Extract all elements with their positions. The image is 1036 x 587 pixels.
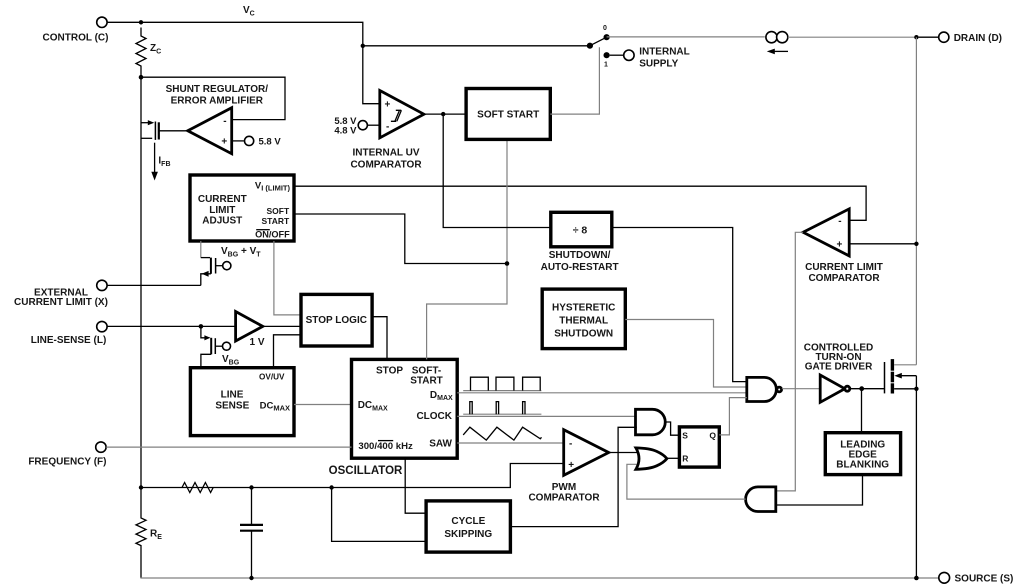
svg-text:INTERNAL: INTERNAL	[639, 47, 690, 58]
op-amp internal UV comparator	[380, 91, 424, 138]
terminal 5.8 V reference	[245, 136, 254, 145]
svg-text:SOURCE (S): SOURCE (S)	[955, 574, 1014, 585]
svg-text:COMPARATOR: COMPARATOR	[350, 160, 422, 171]
node junction below Zc	[139, 75, 144, 80]
node junction UV out	[441, 112, 445, 116]
block LINE SENSE	[190, 368, 294, 436]
op-amp current limit comparator	[803, 209, 849, 256]
wire CLOCK to AND	[457, 415, 636, 417]
wire soft-start net into oscillator	[427, 140, 507, 360]
svg-text:THERMAL: THERMAL	[559, 316, 608, 327]
wire driver out to MOSFET gate	[850, 388, 885, 390]
wire latch Q to NAND	[719, 398, 747, 435]
wire ON/OFF down to stop logic	[274, 241, 301, 315]
wire L to buffer	[107, 325, 235, 327]
svg-text:ERROR AMPLIFIER: ERROR AMPLIFIER	[171, 96, 264, 107]
wire error amp plus to 5.8V	[232, 140, 244, 142]
wire source rail down	[915, 376, 917, 578]
terminal 5.8/4.8V threshold	[358, 121, 367, 130]
waveform SAW triangle	[463, 427, 541, 440]
svg-text:DRAIN (D): DRAIN (D)	[954, 33, 1002, 44]
svg-text:SHUTDOWN: SHUTDOWN	[554, 329, 613, 340]
svg-text:÷ 8: ÷ 8	[573, 224, 588, 236]
node junction frequency RC	[139, 485, 143, 489]
svg-text:SOFT START: SOFT START	[477, 110, 539, 121]
svg-text:FREQUENCY (F): FREQUENCY (F)	[28, 456, 106, 467]
svg-text:+: +	[221, 137, 227, 148]
wire AND out to latch S	[666, 422, 679, 435]
op-amp U1 shunt regulator / error amplifier	[188, 108, 232, 154]
wire X to transistor	[107, 284, 201, 286]
svg-text:STOP: STOP	[376, 365, 403, 376]
buffer 1V	[236, 312, 263, 342]
svg-text:INTERNAL UV: INTERNAL UV	[352, 148, 419, 159]
wire F to oscillator	[106, 446, 351, 448]
current source	[766, 32, 777, 43]
svg-text:CURRENT: CURRENT	[198, 194, 247, 205]
svg-text:5.8 V: 5.8 V	[259, 136, 282, 147]
terminal LINE-SENSE (L)	[97, 321, 107, 331]
gate AND blanking (points left)	[746, 487, 776, 512]
wire oscillator to cycle skipping	[405, 458, 426, 513]
resistor Zc	[136, 28, 146, 70]
wire blanking out to AND	[776, 475, 863, 505]
wire blanking AND out to OR	[627, 464, 746, 499]
terminal DRAIN (D)	[919, 36, 939, 38]
svg-text:CURRENT LIMIT (X): CURRENT LIMIT (X)	[14, 297, 108, 308]
gate NAND U2	[747, 377, 777, 401]
resistor horizontal	[182, 483, 213, 493]
svg-text:LIMIT: LIMIT	[209, 205, 235, 216]
node junction CL comparator plus tap	[914, 242, 918, 246]
hysteresis glyph	[391, 110, 402, 121]
svg-text:BLANKING: BLANKING	[836, 460, 889, 471]
wire cycle skipping out to AND	[510, 427, 636, 526]
node junction Vc bend	[361, 44, 365, 48]
gate OR pwm	[636, 448, 667, 469]
svg-text:STOP LOGIC: STOP LOGIC	[306, 315, 367, 326]
label IFB with arrow	[154, 143, 156, 175]
terminal INTERNAL SUPPLY	[610, 54, 624, 56]
wire soft start out	[294, 214, 507, 264]
wire UV out down to divide-by-8	[443, 114, 551, 227]
transistor output MOSFET	[885, 359, 917, 393]
switch blade	[590, 37, 607, 46]
wire SAW to PWM comparator	[457, 442, 564, 444]
wire DCMAX to oscillator	[294, 404, 352, 406]
svg-text:0: 0	[603, 25, 607, 32]
svg-text:S: S	[682, 430, 688, 440]
terminal EXTERNAL CURRENT LIMIT (X)	[97, 280, 107, 290]
svg-text:ON/OFF: ON/OFF	[255, 229, 290, 239]
wire left rail down from Zc junction	[140, 69, 142, 488]
svg-text:SKIPPING: SKIPPING	[444, 529, 492, 540]
svg-text:4.8 V: 4.8 V	[334, 125, 357, 136]
svg-text:START: START	[410, 376, 443, 387]
wire bottom source rail	[140, 577, 939, 579]
svg-text:CURRENT LIMIT: CURRENT LIMIT	[805, 262, 883, 273]
svg-text:ADJUST: ADJUST	[202, 215, 242, 226]
wire Vc to switch	[363, 45, 590, 47]
wire stop logic out to oscillator	[372, 317, 387, 360]
wire divide-by-8 out to NAND	[612, 228, 747, 382]
wire switch 0 to current source	[607, 36, 765, 38]
node junction drain rail	[914, 35, 918, 39]
svg-text:+: +	[385, 100, 391, 111]
svg-text:1: 1	[604, 61, 608, 68]
terminal FREQUENCY (F)	[96, 442, 106, 452]
svg-text:CONTROL (C): CONTROL (C)	[43, 32, 109, 43]
svg-text:VBG + VT: VBG + VT	[221, 246, 261, 259]
wire soft start out up to switch	[550, 47, 599, 114]
wire VI(LIMIT) to current limit comparator minus	[294, 186, 866, 220]
svg-text:CLOCK: CLOCK	[416, 411, 452, 422]
wire drain rail down	[915, 37, 917, 365]
svg-text:PWM: PWM	[552, 482, 576, 493]
buffer controlled turn-on gate driver	[820, 375, 845, 402]
switch positions	[587, 43, 593, 49]
block SOFT START	[466, 89, 550, 140]
svg-text:300/400 kHz: 300/400 kHz	[358, 441, 413, 452]
block SR latch	[679, 427, 719, 467]
node junction L wire	[199, 324, 204, 329]
wire hysteretic out to NAND	[625, 320, 747, 388]
svg-text:-: -	[838, 216, 841, 227]
block divide by 8	[551, 212, 612, 247]
svg-text:R: R	[682, 454, 688, 464]
op-amp PWM comparator	[564, 430, 609, 476]
svg-text:CYCLE: CYCLE	[451, 516, 485, 527]
wire RC tap to cycle skipping	[332, 488, 427, 542]
svg-text:COMPARATOR: COMPARATOR	[808, 273, 880, 284]
wire PWM plus input from RC	[141, 464, 564, 488]
gate AND clock	[636, 409, 666, 435]
node junction Vc top	[139, 20, 143, 24]
resistor RE	[136, 488, 146, 579]
block LEADING EDGE BLANKING	[825, 433, 900, 475]
wire Vc rail: CONTROL to switch pivot	[107, 22, 380, 103]
wire driver out down to leading edge blanking	[861, 389, 863, 433]
wire CL comparator out down to blanking AND	[776, 232, 803, 491]
svg-text:-: -	[569, 439, 572, 450]
svg-text:+: +	[836, 239, 842, 250]
svg-text:LINE: LINE	[221, 390, 244, 401]
node junction cap bottom	[249, 576, 253, 580]
node junction cap top	[249, 485, 253, 489]
svg-text:1 V: 1 V	[250, 337, 265, 348]
block OSCILLATOR	[352, 359, 458, 458]
wire DMAX to NAND	[457, 392, 747, 394]
svg-text:SOFT: SOFT	[267, 206, 290, 216]
svg-text:-: -	[386, 122, 389, 133]
terminal SOURCE (S)	[939, 572, 950, 583]
node junction source rail	[914, 576, 919, 581]
svg-text:HYSTERETIC: HYSTERETIC	[552, 303, 615, 314]
transistor Q VBG	[201, 326, 231, 367]
block CURRENT LIMIT ADJUST	[190, 175, 294, 241]
svg-text:GATE DRIVER: GATE DRIVER	[805, 362, 873, 373]
svg-text:LINE-SENSE (L): LINE-SENSE (L)	[31, 335, 107, 346]
svg-text:+: +	[568, 460, 574, 471]
node junction MOSFET source	[914, 387, 918, 391]
transistor shunt MOSFET	[141, 120, 188, 140]
block STOP LOGIC	[301, 294, 372, 346]
wire OR out to latch R	[667, 457, 679, 459]
waveform CLOCK pulses	[463, 413, 541, 415]
wire NAND out to gate driver	[782, 388, 820, 390]
wire feedback loop to error amp minus	[141, 77, 285, 119]
terminal CONTROL (C)	[97, 17, 107, 27]
wire OV/UV to stop logic	[274, 335, 302, 368]
svg-text:COMPARATOR: COMPARATOR	[528, 493, 600, 504]
svg-text:OSCILLATOR: OSCILLATOR	[329, 465, 403, 477]
wire current source to drain	[788, 36, 917, 38]
svg-text:SENSE: SENSE	[215, 400, 249, 411]
svg-text:OV/UV: OV/UV	[259, 373, 285, 382]
node junction driver out	[859, 386, 864, 391]
node junction soft-start	[505, 261, 510, 266]
wire UV comparator out to soft start	[424, 113, 466, 115]
svg-text:Q: Q	[709, 430, 716, 440]
svg-text:AUTO-RESTART: AUTO-RESTART	[541, 262, 619, 273]
waveform DMAX square	[463, 390, 541, 392]
svg-text:-: -	[223, 116, 226, 127]
transistor Q VBG+VT	[201, 241, 231, 285]
svg-text:SUPPLY: SUPPLY	[639, 58, 678, 69]
wire PWM out to OR	[609, 452, 637, 454]
wire buffer out to stop logic	[263, 325, 301, 327]
svg-text:SAW: SAW	[429, 438, 452, 449]
block HYSTERETIC THERMAL SHUTDOWN	[542, 289, 625, 349]
wire CL comparator plus input	[849, 243, 916, 245]
svg-text:SHUTDOWN/: SHUTDOWN/	[549, 250, 611, 261]
svg-text:START: START	[261, 216, 290, 226]
svg-text:SHUNT REGULATOR/: SHUNT REGULATOR/	[166, 84, 269, 95]
node junction cycle skip tap	[329, 485, 333, 489]
capacitor C	[240, 488, 263, 579]
block CYCLE SKIPPING	[426, 501, 510, 552]
